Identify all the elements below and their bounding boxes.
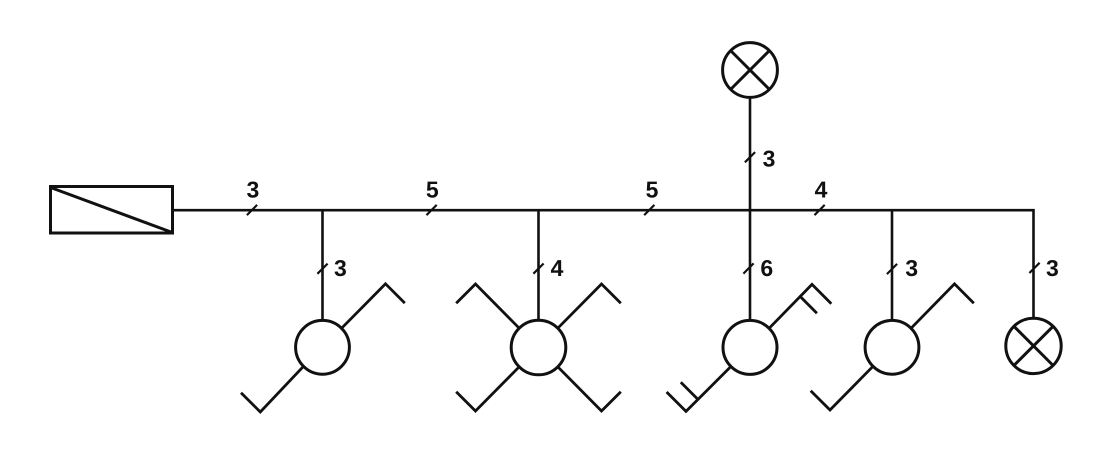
conductor tick on bus (5): [644, 205, 654, 215]
series switch S3 (double ticks): [667, 284, 832, 411]
lamp E2 (circle with X): [1006, 318, 1061, 373]
label 3 (drop 1): [335, 260, 346, 276]
label 4 (bus segment 4): [815, 182, 827, 198]
label 3 (drop 3 upper): [763, 150, 774, 166]
label 3 (drop 4): [906, 260, 917, 276]
label 3 (bus segment 1): [247, 181, 258, 197]
conductor tick on drop 3 lower (6): [743, 263, 753, 273]
conductor tick on drop 2: [533, 264, 543, 274]
label 5 (bus segment 3): [646, 182, 657, 198]
label 6 (drop 3 lower): [761, 260, 772, 276]
wire: drop 3 from lamp E1 through bus to switch S3: [749, 98, 752, 320]
distribution board (consumer unit): [51, 187, 173, 234]
cross (intermediate) switch S2: [456, 284, 621, 411]
label 5 (bus segment 2): [427, 182, 438, 198]
two-way switch S1: [241, 284, 405, 412]
conductor tick on bus (5): [427, 205, 437, 215]
two-way switch S4: [811, 284, 974, 410]
conductor tick on bus (3): [247, 205, 257, 215]
conductor tick on bus (4): [815, 205, 825, 215]
conductor tick on drop 1: [317, 264, 327, 274]
wire: main bus from board to right corner, down to lamp E2: [174, 210, 1034, 318]
label 3 (drop 5): [1047, 260, 1058, 276]
lamp E1 (circle with X): [723, 43, 778, 98]
conductor tick on drop 5: [1029, 263, 1039, 273]
wire: drop 1 to switch S1: [321, 210, 324, 320]
conductor tick on drop 3 upper (3): [745, 152, 755, 162]
wire: drop 2 to switch S2: [537, 210, 540, 320]
conductor tick on drop 4: [887, 264, 897, 274]
wire: drop 4 to switch S4: [891, 210, 894, 320]
label 4 (drop 2): [551, 260, 563, 276]
